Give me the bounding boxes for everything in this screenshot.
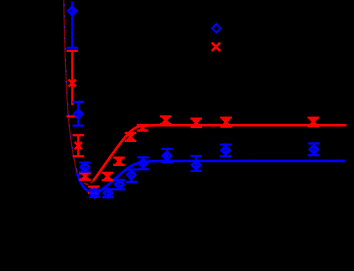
blue point 12 — [308, 143, 320, 155]
red point 12 — [308, 118, 320, 127]
red point 4 — [88, 186, 100, 193]
blue point 8 — [137, 157, 149, 169]
red point 8 — [137, 124, 149, 131]
red point 11 — [220, 118, 232, 127]
red point 10 — [190, 119, 202, 127]
red point 1 — [67, 51, 79, 105]
blue point 3 — [79, 163, 91, 172]
blue point 10 — [190, 156, 202, 171]
blue point 11 — [220, 145, 232, 157]
blue point 2 — [73, 102, 85, 126]
red point 7 — [125, 133, 137, 141]
blue curve — [77, 161, 345, 194]
legend blue diamond — [212, 24, 220, 32]
red point 1 detached bottom cap — [66, 115, 78, 117]
red point 5 — [102, 173, 114, 180]
red point 2 — [73, 135, 85, 156]
red point 6 — [113, 158, 125, 165]
blue point 6 — [114, 180, 126, 190]
blue point 5 — [102, 189, 114, 197]
blue point 7 — [125, 170, 137, 182]
red point 9 — [160, 116, 172, 124]
blue point 9 — [161, 149, 173, 162]
blue curve steep (dark) — [64, 0, 77, 172]
legend red X — [212, 43, 220, 51]
blue point 1 — [67, 2, 79, 48]
red curve steep lower (dark) — [77, 171, 93, 184]
blue point 4 — [89, 189, 101, 197]
red curve — [93, 125, 347, 181]
red curve steep (dark) — [64, 0, 77, 172]
red point 3 — [79, 173, 91, 180]
